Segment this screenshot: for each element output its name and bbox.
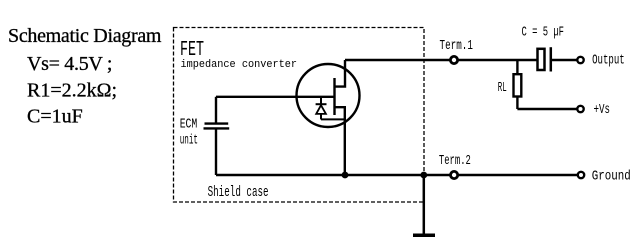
ECM microphone capacitor element — [204, 97, 230, 175]
resistor RL — [514, 74, 522, 96]
svg-text:Shield case: Shield case — [208, 185, 269, 201]
svg-text:C=1uF: C=1uF — [27, 106, 83, 128]
svg-text:R1=2.2kΩ;: R1=2.2kΩ; — [27, 80, 117, 102]
terminal +Vs — [577, 106, 583, 112]
svg-text:Ground: Ground — [592, 170, 631, 185]
terminal Term.2 — [451, 171, 458, 178]
svg-text:Vs= 4.5V ;: Vs= 4.5V ; — [27, 53, 112, 75]
svg-text:impedance converter: impedance converter — [181, 59, 298, 71]
diode D1 protection diode — [316, 97, 345, 120]
svg-text:+Vs: +Vs — [594, 103, 611, 118]
shield case dashed boundary — [174, 28, 425, 203]
svg-text:ECM: ECM — [180, 118, 198, 133]
svg-text:RL: RL — [498, 81, 507, 96]
svg-text:Term.1: Term.1 — [440, 39, 473, 54]
junction ground stub — [420, 172, 427, 179]
wire top rail — [345, 59, 537, 62]
wire bottom rail — [216, 174, 577, 177]
svg-text:Schematic Diagram: Schematic Diagram — [8, 25, 162, 47]
svg-text:unit: unit — [180, 134, 198, 149]
transistor Q1 source lead — [335, 107, 345, 175]
wire below RL — [516, 97, 518, 110]
svg-text:Term.2: Term.2 — [439, 154, 471, 169]
ground symbol — [413, 234, 435, 238]
transistor Q1 gate bar — [333, 78, 335, 115]
svg-text:Output: Output — [592, 54, 625, 69]
wire ground stub vertical — [423, 175, 426, 234]
wire cap to output — [552, 59, 577, 61]
terminal Output — [577, 57, 583, 63]
junction source to bottom rail — [342, 172, 349, 179]
wire to +Vs — [517, 108, 577, 110]
svg-text:C = 5 µF: C = 5 µF — [522, 24, 565, 40]
capacitor C right plate — [550, 47, 553, 71]
terminal Ground — [578, 172, 584, 178]
transistor Q1 FET circle — [297, 64, 360, 127]
wire gate horizontal — [216, 96, 335, 98]
terminal Term.1 — [450, 56, 457, 63]
wire RL branch down — [516, 60, 518, 75]
capacitor C left plate — [538, 49, 545, 70]
transistor Q1 drain lead — [335, 60, 346, 87]
